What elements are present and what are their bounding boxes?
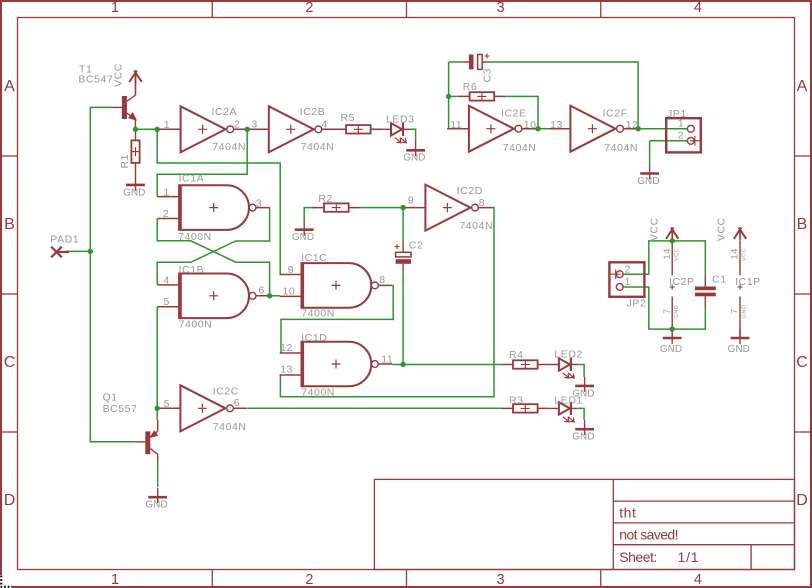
svg-text:A: A bbox=[797, 78, 808, 95]
node VCC rail bbox=[670, 238, 675, 243]
ground below LED2 bbox=[575, 377, 594, 392]
wire IC1B output to IC1C pin 10 bbox=[270, 295, 280, 297]
svg-text:3: 3 bbox=[251, 118, 257, 130]
svg-text:2: 2 bbox=[305, 572, 313, 588]
svg-text:IC1C: IC1C bbox=[301, 252, 327, 264]
svg-text:6: 6 bbox=[259, 285, 265, 297]
wire IC2F output to JP1 pin 1 bbox=[638, 128, 687, 130]
svg-text:2: 2 bbox=[234, 118, 240, 130]
resistor R2 bbox=[312, 203, 360, 212]
svg-text:GND: GND bbox=[292, 232, 314, 243]
svg-text:tht: tht bbox=[619, 504, 636, 520]
wire LED3 cathode to GND bbox=[410, 129, 416, 141]
svg-text:C2: C2 bbox=[409, 240, 424, 252]
wire R2 left to GND bbox=[304, 208, 316, 222]
svg-text:D: D bbox=[4, 492, 16, 509]
wire JP2 pin 1 to GND node bbox=[623, 287, 672, 329]
svg-text:R6: R6 bbox=[463, 81, 478, 93]
svg-text:2: 2 bbox=[305, 0, 313, 16]
svg-text:R1: R1 bbox=[119, 154, 131, 169]
wire R6 right to IC2E output bbox=[506, 96, 538, 128]
sheet origin dashed marker bbox=[0, 575, 3, 588]
node GND rail bbox=[670, 326, 675, 331]
svg-text:1: 1 bbox=[111, 572, 119, 588]
svg-text:IC2B: IC2B bbox=[300, 106, 326, 118]
node R2/C2/IC2D bbox=[400, 205, 405, 210]
svg-text:GND: GND bbox=[145, 500, 167, 511]
svg-text:IC2P: IC2P bbox=[669, 276, 695, 288]
svg-text:1: 1 bbox=[625, 276, 631, 288]
wire C3/R6 node to IC2E input bbox=[448, 62, 450, 129]
svg-text:3: 3 bbox=[256, 197, 262, 209]
svg-text:R2: R2 bbox=[318, 193, 333, 205]
nand gate IC1B bbox=[157, 274, 270, 319]
svg-text:11: 11 bbox=[450, 119, 462, 131]
node IC2A output bbox=[245, 127, 250, 132]
wire T1 emitter to IC2A input bbox=[135, 128, 158, 130]
wire LED1 cathode to GND bbox=[578, 408, 584, 420]
supply VCC IC1P bbox=[734, 228, 746, 241]
nand gate IC1D bbox=[280, 342, 393, 387]
node PAD1 tee bbox=[88, 249, 93, 254]
svg-text:4: 4 bbox=[164, 274, 170, 286]
svg-text:IC2A: IC2A bbox=[212, 106, 238, 118]
resistor R4 bbox=[501, 360, 549, 369]
svg-text:7404N: 7404N bbox=[301, 141, 335, 153]
svg-text:VCC: VCC bbox=[716, 217, 728, 241]
inverter IC2D bbox=[404, 185, 492, 231]
svg-text:9: 9 bbox=[408, 195, 414, 207]
title block bbox=[374, 479, 794, 569]
ground below R1 bbox=[126, 176, 145, 191]
svg-text:PAD1: PAD1 bbox=[50, 234, 79, 246]
svg-text:GND: GND bbox=[403, 153, 425, 164]
svg-text:C3: C3 bbox=[482, 68, 494, 83]
svg-text:13: 13 bbox=[280, 364, 293, 376]
wire IC1D output to R4 bbox=[392, 364, 501, 366]
svg-text:7400N: 7400N bbox=[178, 231, 212, 243]
wire VCC node to C1 top bbox=[672, 241, 705, 275]
wire R2 node to C2 top bbox=[402, 208, 404, 242]
led LED2 bbox=[549, 358, 578, 378]
node IC2F output bbox=[635, 126, 640, 131]
svg-text:13: 13 bbox=[550, 119, 563, 131]
wire IC1C output to IC1D pin 12 bbox=[281, 286, 393, 353]
wire JP2 pin 2 to VCC node bbox=[623, 241, 672, 274]
wire IC1A pin 2 to IC1B output (cross) bbox=[157, 219, 269, 296]
wire R2 right to IC2D input bbox=[360, 207, 404, 209]
svg-text:4: 4 bbox=[694, 572, 702, 588]
wire R6 left bbox=[449, 95, 458, 97]
svg-text:10: 10 bbox=[524, 119, 537, 131]
node IC1B output bbox=[267, 293, 272, 298]
connector JP1 bbox=[666, 118, 701, 152]
svg-text:7404N: 7404N bbox=[213, 421, 247, 433]
wire T1 collector to VCC bbox=[135, 72, 137, 95]
svg-text:2: 2 bbox=[678, 130, 684, 142]
wire C2 bottom to IC1D output node bbox=[402, 274, 404, 364]
svg-text:IC1P: IC1P bbox=[735, 276, 761, 288]
svg-text:VCC: VCC bbox=[649, 217, 661, 241]
svg-text:LED3: LED3 bbox=[386, 114, 414, 126]
supply VCC near T1 bbox=[129, 71, 141, 84]
svg-text:D: D bbox=[796, 492, 808, 509]
svg-text:3: 3 bbox=[496, 0, 504, 16]
capacitor C3 bbox=[463, 54, 490, 70]
svg-text:1: 1 bbox=[164, 187, 170, 199]
svg-text:3: 3 bbox=[496, 572, 504, 588]
ground below JP1 bbox=[640, 165, 659, 180]
inverter IC2A bbox=[159, 106, 247, 152]
svg-text:GND: GND bbox=[674, 305, 680, 319]
svg-text:IC2C: IC2C bbox=[213, 386, 239, 398]
wire T1 base / Q1 base rail bbox=[90, 107, 136, 441]
svg-text:8: 8 bbox=[379, 274, 385, 286]
ground below Q1 bbox=[148, 488, 167, 503]
svg-text:B: B bbox=[797, 216, 808, 233]
svg-text:7404N: 7404N bbox=[212, 141, 246, 153]
svg-text:5: 5 bbox=[164, 296, 170, 308]
resistor R6 bbox=[458, 92, 506, 101]
svg-text:BC547: BC547 bbox=[78, 74, 113, 86]
pad PAD1 bbox=[51, 247, 69, 258]
svg-text:R4: R4 bbox=[509, 349, 524, 361]
resistor R3 bbox=[501, 404, 549, 413]
inverter IC2B bbox=[247, 106, 335, 152]
wire IC2A input node to IC1C pin 9 bbox=[157, 129, 280, 275]
node IC2C input bbox=[155, 406, 160, 411]
svg-text:IC1B: IC1B bbox=[179, 264, 205, 276]
svg-text:2: 2 bbox=[163, 208, 169, 220]
led LED3 bbox=[382, 123, 411, 143]
svg-text:9: 9 bbox=[288, 264, 294, 276]
svg-text:LED2: LED2 bbox=[554, 348, 582, 360]
node R6/C3 bbox=[446, 94, 451, 99]
node IC2A input bbox=[155, 127, 160, 132]
svg-text:7400N: 7400N bbox=[179, 319, 213, 331]
svg-text:4: 4 bbox=[322, 118, 328, 130]
svg-text:1/1: 1/1 bbox=[678, 549, 700, 565]
svg-text:R3: R3 bbox=[509, 395, 524, 407]
svg-text:A: A bbox=[4, 78, 15, 95]
transistor T1 bbox=[113, 95, 136, 129]
svg-text:11: 11 bbox=[381, 354, 393, 366]
svg-text:GND: GND bbox=[728, 344, 750, 355]
wire PAD1 to rail bbox=[66, 250, 90, 252]
ground below IC1P bbox=[731, 329, 750, 344]
ground below R2 bbox=[295, 221, 314, 236]
capacitor C2 bbox=[395, 242, 412, 274]
inverter IC2F bbox=[549, 106, 637, 152]
svg-text:7404N: 7404N bbox=[604, 142, 638, 154]
svg-text:14: 14 bbox=[730, 248, 741, 260]
ground below LED1 bbox=[575, 420, 594, 435]
svg-text:10: 10 bbox=[283, 286, 296, 298]
svg-text:Sheet:: Sheet: bbox=[619, 549, 656, 565]
wire Q1 collector to GND bbox=[157, 463, 159, 488]
svg-text:GND: GND bbox=[660, 344, 682, 355]
svg-text:7: 7 bbox=[662, 308, 673, 314]
wire JP1 pin 2 down bbox=[649, 141, 651, 165]
wire JP1 pin 2 to GND bbox=[650, 140, 688, 142]
svg-text:14: 14 bbox=[662, 248, 673, 260]
transistor Q1 bbox=[137, 420, 158, 463]
svg-text:1: 1 bbox=[678, 118, 684, 130]
wire IC1A output to IC1B pin 4 (cross) bbox=[157, 208, 269, 285]
svg-text:1: 1 bbox=[111, 0, 119, 16]
svg-text:7400N: 7400N bbox=[301, 307, 335, 319]
svg-text:GND: GND bbox=[572, 432, 594, 443]
wire LED2 cathode to GND bbox=[578, 365, 584, 378]
ground below IC2P bbox=[663, 329, 682, 344]
svg-text:VCC: VCC bbox=[674, 248, 680, 261]
svg-text:8: 8 bbox=[479, 197, 485, 209]
svg-text:VCC: VCC bbox=[742, 248, 748, 261]
svg-text:C1: C1 bbox=[712, 274, 727, 286]
svg-text:6: 6 bbox=[234, 397, 240, 409]
svg-text:IC2F: IC2F bbox=[603, 108, 628, 120]
svg-text:GND: GND bbox=[742, 305, 748, 319]
svg-text:C: C bbox=[4, 354, 16, 371]
wire C1 bottom to GND node bbox=[672, 308, 705, 329]
ground below LED3 bbox=[406, 141, 425, 156]
svg-text:7404N: 7404N bbox=[503, 142, 537, 154]
svg-text:4: 4 bbox=[694, 0, 702, 16]
wire IC2E output to IC2F input bbox=[536, 128, 549, 130]
resistor R1 bbox=[131, 129, 140, 176]
node T1 emitter bbox=[133, 127, 138, 132]
svg-text:LED1: LED1 bbox=[554, 395, 582, 407]
svg-text:7404N: 7404N bbox=[459, 220, 493, 232]
svg-text:5: 5 bbox=[164, 398, 170, 410]
capacitor C1 bbox=[695, 275, 716, 308]
svg-text:GND: GND bbox=[637, 176, 659, 187]
svg-text:Q1: Q1 bbox=[103, 391, 118, 403]
svg-text:GND: GND bbox=[123, 187, 145, 198]
node IC2E output bbox=[535, 126, 540, 131]
wire IC2D output to IC1D pin 13 bbox=[280, 208, 494, 397]
svg-text:7400N: 7400N bbox=[301, 387, 335, 399]
node IC1D output bbox=[400, 362, 405, 367]
svg-text:R5: R5 bbox=[341, 112, 356, 124]
wire IC2C output to R3 bbox=[247, 407, 501, 409]
inverter IC2C bbox=[159, 385, 247, 431]
svg-text:VCC: VCC bbox=[113, 63, 125, 87]
resistor R5 bbox=[334, 125, 382, 134]
svg-text:JP2: JP2 bbox=[627, 298, 647, 310]
wire C3 left bbox=[449, 61, 463, 63]
connector JP2 bbox=[609, 262, 644, 297]
svg-text:2: 2 bbox=[625, 264, 631, 276]
svg-text:IC1D: IC1D bbox=[301, 332, 327, 344]
supply VCC IC2P bbox=[666, 228, 678, 241]
svg-text:12: 12 bbox=[280, 342, 293, 354]
nand gate IC1A bbox=[157, 185, 270, 230]
inverter IC2E bbox=[447, 106, 535, 152]
svg-text:IC2D: IC2D bbox=[457, 185, 483, 197]
svg-text:BC557: BC557 bbox=[103, 403, 138, 415]
svg-text:IC1A: IC1A bbox=[179, 172, 205, 184]
svg-text:IC2E: IC2E bbox=[501, 108, 527, 120]
svg-text:B: B bbox=[4, 216, 15, 233]
svg-text:7: 7 bbox=[730, 308, 741, 314]
wire IC2A output to IC1A pin 1 bbox=[157, 129, 247, 196]
led LED1 bbox=[549, 402, 578, 422]
svg-text:not saved!: not saved! bbox=[619, 527, 678, 543]
wire C3 right to IC2F output bbox=[489, 62, 638, 129]
svg-text:1: 1 bbox=[164, 119, 170, 131]
nand gate IC1C bbox=[280, 263, 393, 308]
wire IC1B pin 5 / IC2C input / Q1 emitter rail bbox=[156, 307, 158, 420]
svg-text:C: C bbox=[796, 354, 808, 371]
